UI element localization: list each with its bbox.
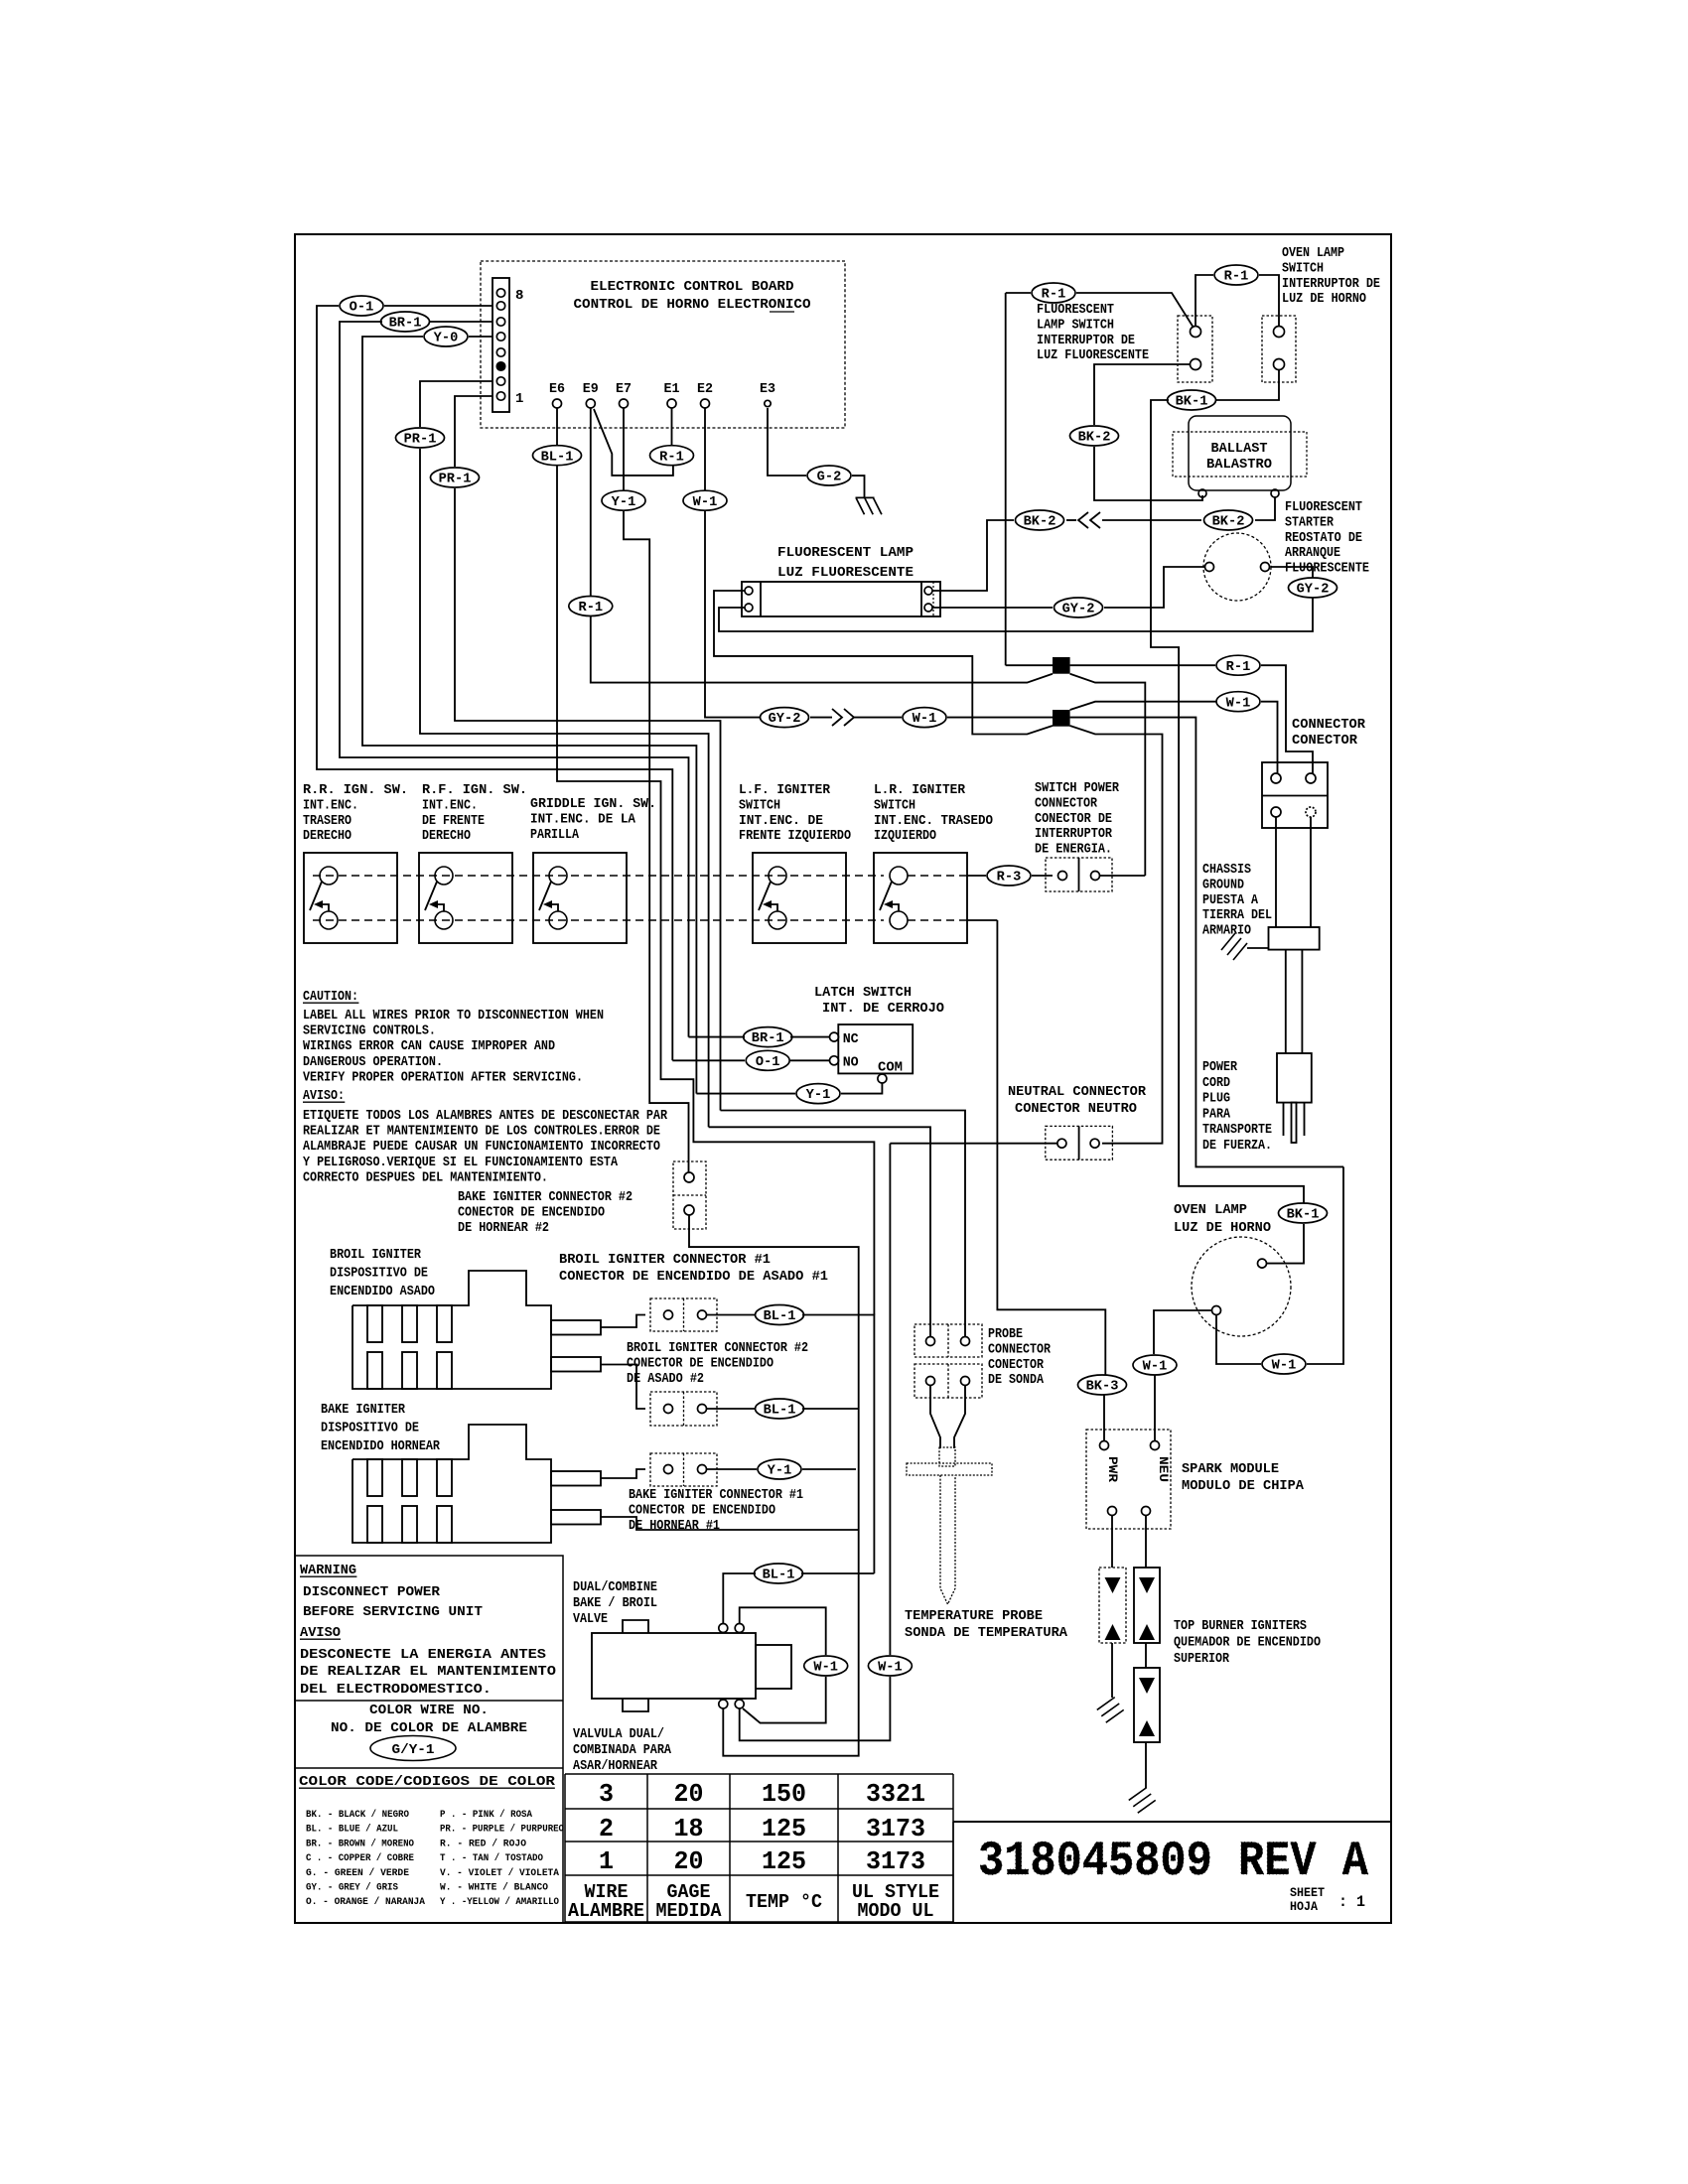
svg-text:BK-1: BK-1 [1287,1208,1320,1223]
probe connector box 2 [914,1364,982,1398]
junction square 1 [1053,657,1070,674]
power cord lines [1285,950,1287,1053]
wire square1 diag right to switch power feed [1070,674,1146,876]
svg-text:PWR: PWR [1105,1456,1120,1482]
svg-text:R-1: R-1 [1226,660,1251,675]
oval W-1 probe [868,1656,912,1676]
svg-text:DE REALIZAR EL MANTENIMIENTO: DE REALIZAR EL MANTENIMIENTO [300,1664,556,1680]
temperature probe flange [907,1463,992,1475]
svg-text:BALLAST: BALLAST [1211,441,1268,457]
temperature probe leads [930,1386,940,1449]
valve right box [756,1645,791,1689]
wire to W-1 oval [810,717,832,719]
svg-text:G. - GREEN / VERDE: G. - GREEN / VERDE [306,1867,409,1879]
svg-text:318045809 REV A: 318045809 REV A [978,1834,1369,1889]
svg-text:PUESTA A: PUESTA A [1202,892,1258,908]
svg-text:Y-1: Y-1 [806,1088,831,1103]
wire square1 right to R-1 oval [1070,664,1215,666]
svg-text:CONECTOR DE ENCENDIDO DE ASADO: CONECTOR DE ENCENDIDO DE ASADO #1 [559,1269,828,1285]
wire BK-1 oven switch down [1215,369,1279,400]
oval R-1 under E9 [569,597,613,616]
wire probe pin B up [721,1111,966,1337]
wire W-1 valve loop [740,1607,826,1655]
wire E3 down to G-2 [768,408,806,476]
svg-text:3173: 3173 [866,1846,925,1876]
oval PR-1 b [431,468,480,487]
page border frame [295,234,1391,1923]
wire broil conn1 to BL-1 [707,1314,758,1316]
svg-text:CONECTOR DE ENCENDIDO: CONECTOR DE ENCENDIDO [627,1355,774,1371]
svg-text:DISPOSITIVO DE: DISPOSITIVO DE [330,1266,428,1282]
svg-text:ENCENDIDO HORNEAR: ENCENDIDO HORNEAR [321,1438,440,1454]
broil igniter connector 2 box [650,1392,717,1426]
bake igniter prongs [551,1471,601,1486]
svg-text:DE ENERGIA.: DE ENERGIA. [1035,842,1112,858]
svg-text:DESCONECTE LA ENERGIA ANTES: DESCONECTE LA ENERGIA ANTES [300,1647,546,1663]
svg-text:150: 150 [762,1779,806,1809]
wire R-1 oval to switch diag [1076,293,1194,328]
svg-text:18: 18 [674,1814,704,1843]
svg-text:DEL ELECTRODOMESTICO.: DEL ELECTRODOMESTICO. [300,1682,492,1698]
ground chassis [1221,933,1247,960]
wire BK-1 to lamp top contact [1267,1224,1305,1264]
svg-text:BL-1: BL-1 [764,1309,796,1324]
svg-text:IZQUIERDO: IZQUIERDO [874,828,936,844]
svg-text:T . - TAN / TOSTADO: T . - TAN / TOSTADO [440,1852,543,1864]
wire R-1 to connector pin [1261,665,1313,773]
broil connector 2 pins [664,1405,673,1414]
ground for G-2 [856,497,882,514]
svg-text:BEFORE SERVICING UNIT: BEFORE SERVICING UNIT [303,1604,483,1620]
svg-text:VALVULA DUAL/: VALVULA DUAL/ [573,1726,664,1742]
svg-text:GY-2: GY-2 [769,712,801,727]
wire connector left pin down to plug [1275,817,1277,927]
svg-text:DE HORNEAR #1: DE HORNEAR #1 [629,1518,720,1534]
svg-text:REOSTATO DE: REOSTATO DE [1285,530,1362,546]
wire probe pin A up [709,1127,930,1336]
svg-text:VALVE: VALVE [573,1611,608,1627]
chevrons >> [832,709,842,726]
electronic control board dashed outline [481,261,845,428]
svg-text:BL-1: BL-1 [541,450,574,465]
oval W-1 right of lamp [1262,1354,1306,1374]
svg-text:BK-2: BK-2 [1212,515,1245,530]
svg-text:O-1: O-1 [350,301,374,316]
svg-text:E3: E3 [760,381,775,397]
svg-text:PARILLA: PARILLA [530,827,579,843]
svg-text:2: 2 [599,1814,614,1843]
neutral connector pins [1057,1139,1066,1148]
wire R-1 down then right to junction [591,616,1053,683]
board connector P1 box [492,278,509,412]
warning box frame [295,1556,563,1924]
svg-text:LAMP SWITCH: LAMP SWITCH [1037,317,1114,333]
svg-text:PR-1: PR-1 [439,473,472,487]
svg-text:Y-0: Y-0 [434,332,459,346]
ignition switch box 2 [419,853,512,943]
connector box [1262,762,1328,828]
bake connector 2 pins [684,1172,694,1182]
temperature probe head [939,1447,955,1466]
svg-text:BK-3: BK-3 [1086,1380,1119,1395]
chassis ground wire [1247,947,1269,949]
wire W-1 probe up [889,1144,891,1655]
oval BK-1 [1168,390,1216,410]
oval R-1 top [1214,265,1258,285]
svg-text:FLUORESCENT LAMP: FLUORESCENT LAMP [777,545,914,561]
svg-text:LUZ DE HORNO: LUZ DE HORNO [1282,291,1366,307]
svg-text:R-3: R-3 [997,871,1022,886]
wire PWR bottom to igniter1 [1111,1516,1113,1569]
power cord plug body [1277,1053,1312,1103]
bake igniter connector 1 box [650,1453,717,1486]
svg-text:V. - VIOLET / VIOLETA: V. - VIOLET / VIOLETA [440,1867,559,1879]
wire W-1 down to lamp feed line [705,511,762,718]
oval W-1 above NEU [1133,1355,1177,1375]
svg-text:BR-1: BR-1 [389,317,422,332]
wire BL-1 valve left [723,1573,756,1623]
switch 5 contacts [890,867,908,885]
svg-text:REALIZAR ET MANTENIMIENTO DE L: REALIZAR ET MANTENIMIENTO DE LOS CONTROL… [303,1124,660,1140]
svg-text:BAKE IGNITER: BAKE IGNITER [321,1402,405,1418]
wire lamp upper-right to BK-2 chain [932,520,1014,591]
oval BL-1 valve [755,1564,803,1583]
svg-text:BL-1: BL-1 [763,1569,795,1583]
wire W-1 right up the long run [1307,1166,1343,1364]
top burner igniter box 2 [1134,1568,1160,1643]
igniter1 triangles [1105,1577,1121,1593]
svg-text:DE SONDA: DE SONDA [988,1372,1044,1388]
broil igniter body [352,1271,551,1389]
top burner igniter box 1 [1099,1568,1126,1643]
wire E9 down to R-1 oval [590,408,592,596]
svg-text:CORRECTO DESPUES DEL MANTENIMI: CORRECTO DESPUES DEL MANTENIMIENTO. [303,1169,548,1185]
latch COM pin [878,1074,887,1083]
oval W-1 mid [903,708,946,728]
wire R-1 top to fluorescent switch pin [1196,275,1213,327]
oval BK-2 right [1204,510,1253,530]
svg-text:BL. - BLUE / AZUL: BL. - BLUE / AZUL [306,1824,398,1836]
wire square2 right horizontal long W-1 run [1070,718,1343,1167]
fluorescent switch pins [1191,327,1201,338]
svg-text:G/Y-1: G/Y-1 [392,1742,435,1758]
svg-text:E7: E7 [616,381,632,397]
plug prongs [1283,1103,1285,1136]
oven lamp switch pins [1274,327,1285,338]
svg-text:BALASTRO: BALASTRO [1206,457,1272,473]
ballast outer rounded box [1189,416,1291,490]
wire BK-2 down to ballast left pin [1094,447,1202,500]
dashed contact line lower [313,919,884,921]
svg-text:DISPOSITIVO DE: DISPOSITIVO DE [321,1421,419,1436]
svg-text:3173: 3173 [866,1814,925,1843]
broil igniter prongs [551,1320,601,1335]
svg-text:CONECTOR: CONECTOR [1292,733,1358,749]
svg-text:INT.ENC. DE LA: INT.ENC. DE LA [530,811,636,827]
svg-text:NC: NC [843,1031,860,1047]
svg-text:STARTER: STARTER [1285,514,1334,530]
svg-text:PROBE: PROBE [988,1326,1023,1342]
wire igniter1 to ground [1111,1643,1113,1698]
svg-text:Y . -YELLOW / AMARILLO: Y . -YELLOW / AMARILLO [440,1896,559,1908]
svg-text:FRENTE IZQUIERDO: FRENTE IZQUIERDO [739,828,851,844]
latch switch box [838,1024,913,1073]
wire BR-1 left [689,1036,746,1038]
bake igniter body [352,1425,551,1543]
svg-text:20: 20 [674,1779,704,1809]
wire W-1 to junction square 2 [947,717,1053,719]
oval G/Y-1 [370,1736,456,1761]
ballast dashed box [1173,432,1307,477]
svg-text:125: 125 [762,1814,806,1843]
svg-text:CONECTOR NEUTRO: CONECTOR NEUTRO [1015,1101,1137,1117]
svg-text:TEMPERATURE PROBE: TEMPERATURE PROBE [905,1608,1043,1624]
wire Y-0 from pin [469,336,492,338]
svg-text:BL-1: BL-1 [764,1404,796,1419]
wire R-1 top to oven lamp switch pin [1259,275,1279,327]
svg-text:R. - RED / ROJO: R. - RED / ROJO [440,1838,526,1849]
svg-text:CHASSIS: CHASSIS [1202,862,1251,878]
oval BK-3 [1078,1375,1127,1395]
svg-text:SHEET: SHEET [1290,1886,1325,1900]
switch 2 lever [425,882,437,910]
svg-text:BR-1: BR-1 [752,1031,784,1046]
wire R-3 to connector [1032,875,1053,877]
svg-text:CONNECTOR: CONNECTOR [1035,795,1097,811]
svg-text:SWITCH: SWITCH [874,797,915,813]
switch 2 contacts [435,867,453,885]
latch pin NO [830,1056,839,1065]
oval BK-2 mid [1070,426,1119,446]
probe connector pins [926,1337,935,1346]
broil igniter connector 1 box [650,1298,717,1331]
wire Y-1 bake right [802,1468,856,1470]
switch 5 lever [880,882,892,910]
svg-text:Y-1: Y-1 [768,1464,792,1479]
svg-text:TEMP °C: TEMP °C [746,1891,822,1913]
svg-text:R-1: R-1 [1042,288,1066,303]
ignition switch box 4 [753,853,846,943]
svg-text:BROIL IGNITER CONNECTOR #2: BROIL IGNITER CONNECTOR #2 [627,1340,808,1356]
wire Y-1 to COM [841,1083,882,1094]
wire connector right pin down to plug [1310,817,1312,927]
igniter2 triangles [1139,1577,1155,1593]
oval R-1 right [1216,655,1260,675]
wire BL-1 long run E6 to broil riser [557,466,874,1315]
oval W-1 under E2 [683,490,727,510]
svg-text:W-1: W-1 [813,1661,838,1676]
fluorescent lamp body [742,582,940,616]
ignition switch box 5 [874,853,967,943]
wire square2 diag bottom-right to neutral right pin [1070,726,1163,1144]
svg-text:R.F. IGN. SW.: R.F. IGN. SW. [422,782,527,798]
svg-text:GROUND: GROUND [1202,877,1244,892]
svg-text:C . - COPPER / COBRE: C . - COPPER / COBRE [306,1852,414,1864]
svg-text:NO: NO [843,1055,859,1071]
wire Y-1 jog down bundle to igniter connector 2 [624,511,689,1172]
wire PR-1b from pin8 [455,396,492,467]
wire O-1 down left side and staircase to x677 [317,306,672,1060]
svg-text:L.R. IGNITER: L.R. IGNITER [874,782,966,798]
wire R-1 left into square1 [1006,664,1053,666]
svg-text:COMBINADA PARA: COMBINADA PARA [573,1742,671,1758]
wire lamp lower-right to GY-2 mid [932,607,1053,609]
switch 4 contacts [769,867,786,885]
ballast pins [1198,489,1206,497]
dashed line lower right [908,919,967,921]
svg-text:OVEN LAMP: OVEN LAMP [1174,1202,1247,1218]
connector pins [1271,773,1281,783]
svg-text:SWITCH: SWITCH [739,797,780,813]
svg-text:DANGEROUS OPERATION.: DANGEROUS OPERATION. [303,1054,443,1070]
svg-text:R.R. IGN. SW.: R.R. IGN. SW. [303,782,408,798]
broil connector 1 pins [664,1310,673,1319]
svg-text:POWER: POWER [1202,1059,1237,1075]
switch 4 lever [759,882,771,910]
svg-text:DE FUERZA.: DE FUERZA. [1202,1138,1272,1154]
svg-text:DISCONNECT POWER: DISCONNECT POWER [303,1584,441,1600]
wire E6 BL-1 down [556,408,558,445]
fluorescent lamp switch box [1178,316,1212,382]
svg-text:BAKE / BROIL: BAKE / BROIL [573,1595,657,1611]
svg-text:BK. - BLACK / NEGRO: BK. - BLACK / NEGRO [306,1809,409,1821]
svg-text:3: 3 [599,1779,614,1809]
svg-text:CONTROL DE HORNO ELECTRONICO: CONTROL DE HORNO ELECTRONICO [574,297,811,313]
wire W-1 to connector pin [1261,702,1278,773]
svg-text:Y PELIGROSO.VERIQUE SI EL FUNC: Y PELIGROSO.VERIQUE SI EL FUNCIONAMIENTO… [303,1155,619,1170]
svg-text:CONECTOR DE ENCENDIDO: CONECTOR DE ENCENDIDO [458,1204,605,1220]
ground igniter3 [1126,1784,1158,1817]
ignition switch box 3 [533,853,627,943]
svg-text:INTERRUPTOR DE: INTERRUPTOR DE [1037,333,1135,348]
dashed line upper right to R-3 [908,875,967,877]
wire GY-2 up to starter right contact [1271,567,1313,578]
igniter3 triangles [1139,1678,1155,1694]
svg-text:GY. - GREY / GRIS: GY. - GREY / GRIS [306,1882,398,1894]
wire O-1 to NO [790,1059,829,1061]
oval BR-1 latch [744,1027,792,1047]
svg-text:INT.ENC. DE: INT.ENC. DE [739,813,823,829]
wire R-1 vertical from fluorescent switch [1005,293,1007,665]
oval BR-1 [381,312,430,332]
svg-text:QUEMADOR DE ENCENDIDO: QUEMADOR DE ENCENDIDO [1174,1635,1321,1651]
svg-text:CONNECTOR: CONNECTOR [1292,717,1366,733]
wire table grid [565,1773,953,1775]
dashed contact line upper [313,875,884,877]
spark module dotted box [1086,1430,1171,1529]
svg-text:LATCH SWITCH: LATCH SWITCH [814,985,912,1001]
svg-text:GY-2: GY-2 [1062,603,1095,617]
wire BK-2 right to chevrons [1102,519,1201,521]
svg-text:W-1: W-1 [1272,1359,1297,1374]
svg-text:ALAMBRE: ALAMBRE [568,1900,644,1922]
svg-text:BAKE IGNITER CONNECTOR #1: BAKE IGNITER CONNECTOR #1 [629,1487,803,1503]
probe connector box 1 [914,1324,982,1357]
svg-text:BR. - BROWN / MORENO: BR. - BROWN / MORENO [306,1838,414,1849]
oval W-1 right [1216,692,1260,712]
wire E9 diagonal branch to E1/R-1 [594,409,673,476]
svg-text:E9: E9 [583,381,599,397]
svg-text:Y-1: Y-1 [612,495,636,510]
oval BK-1 lower [1279,1203,1328,1223]
svg-text:L.F. IGNITER: L.F. IGNITER [739,782,831,798]
oval R-1 left of fluorescent switch [1032,283,1075,303]
wire BK-1 long run to oven lamp [1151,400,1304,1203]
wire broil prong1 to connector1 [601,1315,645,1328]
svg-text:ARRANQUE: ARRANQUE [1285,545,1340,561]
top burner igniter box 3 [1134,1668,1160,1742]
oven lamp contacts [1258,1259,1267,1268]
svg-text:LABEL ALL WIRES PRIOR TO DISCO: LABEL ALL WIRES PRIOR TO DISCONNECTION W… [303,1008,604,1024]
svg-text:INT.ENC. TRASEDO: INT.ENC. TRASEDO [874,813,993,829]
oval O-1 [340,296,383,316]
wire PR-1a from pin7 [420,381,492,427]
svg-text:INT. DE CERROJO: INT. DE CERROJO [822,1001,944,1017]
svg-text:DE HORNEAR #2: DE HORNEAR #2 [458,1220,549,1236]
svg-text:NO. DE COLOR DE ALAMBRE: NO. DE COLOR DE ALAMBRE [331,1720,527,1736]
oval Y-1 bake [758,1459,801,1479]
svg-text:E2: E2 [697,381,713,397]
svg-text:1: 1 [515,391,523,407]
oven lamp switch box [1262,316,1296,382]
switch 3 contacts [549,867,567,885]
svg-text:LUZ FLUORESCENTE: LUZ FLUORESCENTE [777,565,914,581]
wire G-2 to ground [852,476,865,497]
title block frame [953,1821,1391,1823]
wire bake conn1 to Y-1 [707,1468,758,1470]
oval BL-1 broil1 [756,1305,804,1325]
svg-text:BROIL IGNITER: BROIL IGNITER [330,1247,422,1263]
svg-text:FLUORESCENT: FLUORESCENT [1285,499,1362,515]
oven lamp dashed circle [1192,1237,1291,1336]
svg-text:WIRINGS ERROR CAN CAUSE IMPROP: WIRINGS ERROR CAN CAUSE IMPROPER AND [303,1038,555,1054]
wire BK-2 left to corner [1066,519,1076,521]
svg-text:SERVICING CONTROLS.: SERVICING CONTROLS. [303,1024,436,1039]
svg-text:125: 125 [762,1846,806,1876]
switch 1 lever [310,882,322,910]
svg-text:BK-1: BK-1 [1176,395,1208,410]
svg-text:CONECTOR DE: CONECTOR DE [1035,811,1112,827]
svg-text:TRANSPORTE: TRANSPORTE [1202,1122,1272,1138]
wire BL-1 to valve riser [802,1315,874,1574]
wire E2 down to W-1 oval [704,408,706,490]
svg-text:8: 8 [515,288,523,304]
svg-text:BROIL IGNITER CONNECTOR #1: BROIL IGNITER CONNECTOR #1 [559,1252,771,1268]
wire BK-3 feed from L.R. switch [997,920,1105,1375]
oval W-1 valve [804,1656,848,1676]
svg-text:LUZ DE HORNO: LUZ DE HORNO [1174,1220,1271,1236]
board connector pins 1-8 [496,289,504,297]
wire lamp left contact to NEU branch [1154,1310,1212,1354]
oval R-1 under E1 [650,446,694,466]
svg-text:DERECHO: DERECHO [303,828,352,844]
wire square2 diag top-right to W-1 [1070,702,1216,710]
svg-text:PLUG: PLUG [1202,1091,1230,1107]
wire lamp left contact down to W-1 line [1216,1315,1261,1365]
wire broil conn2 to BL-1 [707,1408,758,1410]
svg-text:INTERRUPTOR DE: INTERRUPTOR DE [1282,276,1380,292]
oval GY-2 mid [1055,598,1103,617]
wire igniter3 to ground [1145,1742,1147,1788]
svg-text:LUZ FLUORESCENTE: LUZ FLUORESCENTE [1037,347,1149,363]
ground igniter1 [1094,1694,1126,1726]
wire bottom-right contact down [740,1677,891,1740]
oval G-2 [807,466,851,485]
svg-text:ALAMBRAJE PUEDE CAUSAR UN FUNC: ALAMBRAJE PUEDE CAUSAR UN FUNCIONAMIENTO… [303,1139,660,1155]
wire PR-1a staircase to x713 [420,449,709,1127]
wire neutral left pin [890,1143,1057,1145]
wire broil prong2 to connector2 [601,1365,645,1410]
